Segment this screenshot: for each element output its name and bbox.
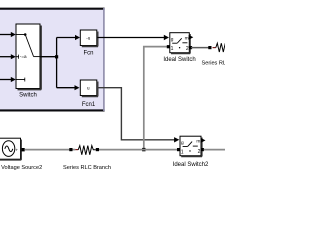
wire: Ideal Switch port2 to RLC node — [191, 47, 209, 49]
node: branch left terminal — [69, 148, 72, 151]
wire: Switch output to branch junction — [40, 56, 57, 58]
svg-text:Ideal Switch: Ideal Switch — [163, 57, 195, 63]
wire: input 3 into Switch — [0, 77, 16, 82]
output m arrow — [189, 35, 194, 40]
switch port1 stub — [17, 34, 26, 36]
series RLC Branch resistor — [63, 146, 111, 172]
output m arrow — [201, 138, 206, 143]
svg-text:1: 1 — [181, 149, 184, 155]
wire: Ideal Switch2 port2 to right edge — [204, 149, 225, 151]
wire: bus continues to Ideal Switch2 — [99, 149, 178, 151]
port 2 square — [201, 148, 204, 151]
svg-text:2: 2 — [198, 149, 201, 155]
port 1 square — [177, 148, 180, 151]
svg-text:Fcn: Fcn — [83, 51, 93, 57]
node: bus junction — [142, 148, 145, 151]
switch symbol — [172, 42, 177, 44]
wire: junction vertical — [56, 38, 58, 88]
node: branch junction — [55, 55, 58, 58]
node: branch right terminal — [96, 148, 99, 151]
series RLC Branch1 resistor — [202, 43, 253, 66]
svg-text:-=a: -=a — [20, 54, 27, 59]
port 1 square — [167, 45, 170, 48]
svg-text:1: 1 — [171, 46, 174, 52]
Ideal Switch block — [163, 33, 195, 63]
svg-text:Series RLC Branch: Series RLC Branch — [63, 165, 111, 171]
svg-text:2: 2 — [186, 46, 189, 52]
wire: input 2 into Switch — [0, 54, 16, 59]
Switch block — [16, 24, 41, 98]
wire: electrical drop to Ideal Switch port 1 — [144, 47, 168, 150]
wire: junction to Fcn — [57, 35, 80, 40]
svg-text:Switch: Switch — [19, 92, 37, 98]
svg-text:u: u — [87, 86, 90, 91]
svg-text:Ideal Switch2: Ideal Switch2 — [173, 162, 209, 168]
node: series RLC terminal — [208, 46, 211, 49]
switch port3 stub — [17, 79, 25, 81]
svg-text:Fcn1: Fcn1 — [82, 102, 96, 108]
svg-text:-u: -u — [86, 35, 91, 40]
switch port2 stub — [17, 56, 19, 58]
switch symbol — [183, 146, 188, 148]
switch blade — [25, 35, 33, 57]
Fcn block — [80, 30, 98, 57]
Fcn1 block — [80, 80, 98, 108]
wire: Fcn1 to Ideal Switch2 gate — [97, 88, 179, 143]
wire: Fcn to Ideal Switch gate — [97, 35, 169, 40]
svg-text:AC Voltage Source2: AC Voltage Source2 — [0, 165, 42, 171]
svg-text:Series RLC Branch1: Series RLC Branch1 — [202, 61, 226, 67]
svg-text:g: g — [171, 38, 174, 43]
switch output stub — [34, 56, 40, 58]
svg-text:+: + — [15, 148, 18, 153]
wire: input 1 into Switch — [0, 32, 16, 37]
subsystem highlight box (annotation area) — [0, 8, 105, 111]
svg-text:m: m — [196, 140, 200, 145]
wire: main electrical bus — [25, 149, 71, 151]
AC Voltage Source2 block — [0, 138, 42, 171]
svg-text:m: m — [185, 36, 189, 41]
wire: junction to Fcn1 — [57, 85, 80, 90]
node: source terminal — [21, 148, 24, 151]
port 2 square — [189, 46, 192, 49]
svg-text:g: g — [181, 141, 184, 146]
Ideal Switch2 block — [173, 136, 209, 168]
